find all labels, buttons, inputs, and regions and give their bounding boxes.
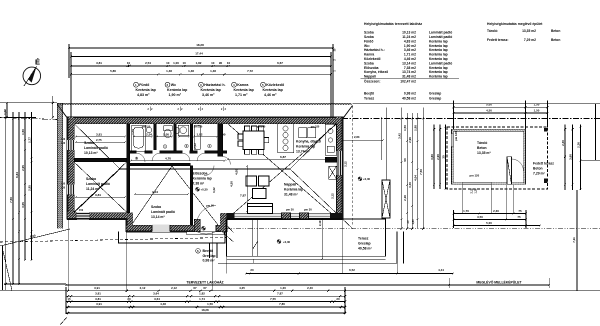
svg-text:13,74 m2: 13,74 m2 [402,70,416,74]
section column with X [382,180,390,218]
svg-text:Nappali: Nappali [364,75,376,79]
svg-text:Kerámia lap: Kerámia lap [136,88,157,92]
north arrow compass [23,66,41,86]
svg-text:Terasz: Terasz [358,237,369,241]
fence scalloped line north [58,104,353,119]
svg-text:1,98: 1,98 [414,125,418,131]
nappali cross [228,124,337,218]
svg-text:Tároló:: Tároló: [487,29,498,33]
svg-text:18,28: 18,28 [196,43,204,47]
svg-text:pm 180: pm 180 [311,125,320,128]
corridor south partition [130,163,191,166]
svg-text:90: 90 [403,158,407,162]
svg-text:Laminált padló: Laminált padló [84,146,108,150]
svg-text:4,83 m²: 4,83 m² [137,93,150,97]
svg-text:3,91: 3,91 [94,286,100,290]
svg-text:5,00: 5,00 [486,103,492,107]
table: Helyisegkimutatas meglevo epulet [487,22,560,42]
svg-text:11,24 m²: 11,24 m² [86,187,100,191]
svg-text:18,28: 18,28 [201,308,209,312]
window left 150/150 #1 [67,140,75,150]
interior partition walls [74,124,337,226]
svg-text:Laminált padló: Laminált padló [429,61,452,65]
svg-text:4,46 m2: 4,46 m2 [404,57,416,61]
svg-text:1,20: 1,20 [280,286,286,290]
svg-text:pm 30: pm 30 [286,208,294,212]
kitchen counter [278,124,337,180]
svg-text:2,30: 2,30 [561,140,565,146]
svg-text:Beton: Beton [551,38,560,42]
svg-text:Kerámia lap: Kerámia lap [429,70,448,74]
svg-text:7,38 m2: 7,38 m2 [404,66,416,70]
svg-text:11,24 m2: 11,24 m2 [402,35,416,39]
room labels [84,140,554,251]
svg-text:1,50: 1,50 [21,129,25,135]
legend circled room list [134,82,285,97]
svg-text:1,70: 1,70 [463,209,469,213]
dining table with chairs [238,126,269,154]
svg-text:⑤: ⑤ [135,157,138,161]
partition wc/haztartasi [174,124,177,151]
svg-text:2,95: 2,95 [28,185,32,191]
svg-text:20: 20 [336,297,340,301]
svg-text:20: 20 [250,268,254,272]
left vertical dimension chains [4,96,66,290]
extension verticals [68,44,70,78]
svg-text:Nappali: Nappali [284,183,296,187]
nappali south glass wall [227,213,343,219]
svg-text:1,74: 1,74 [199,297,205,301]
svg-text:1,50: 1,50 [207,302,213,306]
corridor north partition [130,151,227,154]
svg-text:6,84: 6,84 [15,172,19,178]
outbuilding interior partition [507,157,512,185]
svg-text:Beton: Beton [477,146,487,150]
entry landing + door arc [187,232,225,235]
svg-text:150: 150 [61,187,66,190]
counter along east wall [325,124,337,155]
room2 dim line [76,196,125,198]
svg-text:7,86: 7,86 [279,302,285,306]
svg-text:Kerámia lap: Kerámia lap [429,39,448,43]
svg-text:1,48: 1,48 [166,69,172,73]
terrace slab [119,219,404,263]
svg-text:Kerámia lap: Kerámia lap [429,57,448,61]
svg-text:Beton: Beton [533,166,543,170]
diagonal connector east [343,106,353,119]
svg-text:Kerámia lap: Kerámia lap [263,88,284,92]
svg-text:3,81: 3,81 [96,133,102,137]
svg-text:3,81: 3,81 [95,193,101,197]
terrain dashed line lower-left [0,238,226,243]
outbuilding dashed roof outline [447,127,548,189]
small paired marks above wall [148,107,227,112]
svg-text:Kerámia lap: Kerámia lap [429,48,448,52]
svg-text:Háztartási h.:: Háztartási h.: [364,48,385,52]
svg-text:7,87: 7,87 [240,194,246,198]
window right [336,151,343,175]
svg-text:pm 150: pm 150 [142,125,151,128]
svg-text:Kerámia lap: Kerámia lap [429,66,448,70]
svg-text:1,00: 1,00 [163,133,169,137]
circled fixture numbers [163,144,211,149]
outbuilding walls [452,129,526,184]
svg-text:4,46 m²: 4,46 m² [264,93,277,97]
glass wall posts [282,213,291,219]
bottom dimension chains [66,287,346,314]
washbasin wc [174,128,180,134]
svg-text:7,11: 7,11 [572,237,576,243]
svg-text:7,87: 7,87 [277,291,283,295]
svg-text:2,54: 2,54 [146,133,152,137]
svg-text:3,91: 3,91 [96,302,102,306]
partition room1/room2 [74,158,127,162]
svg-text:Greslap: Greslap [358,241,371,245]
svg-text:40,58 m²: 40,58 m² [358,246,372,250]
svg-text:90: 90 [222,133,226,137]
bottom wall west section [68,213,127,220]
vertical line right lower [576,190,578,291]
svg-text:10: 10 [127,61,131,65]
svg-text:Laminált padló: Laminált padló [86,182,110,186]
svg-text:7,50: 7,50 [9,197,13,203]
svg-text:Helyiségkimutatás tervezett la: Helyiségkimutatás tervezett lakóház [364,22,422,26]
walkway line to outbuilding [403,232,405,264]
svg-text:13,14 m²: 13,14 m² [151,215,165,219]
svg-text:4,70: 4,70 [165,157,171,161]
svg-text:5,86: 5,86 [110,69,116,73]
svg-text:6,67: 6,67 [277,61,283,65]
right wall window dim [331,161,348,199]
svg-text:3,64: 3,64 [154,297,160,301]
svg-text:40,58 m2: 40,58 m2 [402,97,416,101]
svg-text:3,60: 3,60 [430,154,434,160]
fence band west (vertical, hatched) [57,103,63,228]
svg-text:3,81: 3,81 [96,61,102,65]
svg-text:Szoba: Szoba [364,61,374,65]
svg-text:Kerámia lap: Kerámia lap [429,53,448,57]
site line right upper [353,103,600,105]
svg-text:3,81: 3,81 [95,297,101,301]
entry porch west bar [194,219,200,232]
window in bump wall [152,224,170,232]
svg-text:13,35 m²: 13,35 m² [477,151,491,155]
boundary slanted line bottom-left [0,229,70,246]
svg-text:30: 30 [442,155,446,159]
svg-text:31,48 m²: 31,48 m² [284,192,298,196]
svg-text:2,12: 2,12 [171,286,177,290]
svg-text:Beejtő: Beejtő [364,92,374,96]
svg-text:4,83 m2: 4,83 m2 [404,39,416,43]
svg-text:4,00: 4,00 [235,169,239,175]
svg-text:+0,30: +0,30 [201,188,209,192]
svg-text:Konyha, étkező: Konyha, étkező [296,140,321,144]
svg-text:Beton: Beton [551,29,560,33]
svg-text:3,46 m²: 3,46 m² [202,93,215,97]
svg-text:31,48 m2: 31,48 m2 [402,75,416,79]
svg-text:10,13 m²: 10,13 m² [84,151,98,155]
corridor dim line [131,160,225,162]
svg-text:1,48: 1,48 [210,69,216,73]
svg-text:3,64: 3,64 [153,291,159,295]
svg-text:7,29 m²: 7,29 m² [533,171,546,175]
svg-text:2,12: 2,12 [140,286,146,290]
svg-text:1,00: 1,00 [3,109,7,115]
outbuilding wall hatch strips [452,129,526,131]
svg-text:3,44: 3,44 [152,190,158,194]
partition furdo/wc [154,124,157,151]
dashed vertical east of house [352,106,354,225]
svg-text:150: 150 [79,209,84,212]
house outer walls (hatched) [67,117,343,235]
boundary slanted line far-left [3,251,12,291]
top dim labels [96,43,283,73]
haztartasi washer [178,125,189,136]
svg-text:Szoba: Szoba [84,141,94,145]
svg-text:Greslap: Greslap [429,92,441,96]
svg-text:Greslap: Greslap [203,254,216,258]
svg-text:Háztartási h.: Háztartási h. [204,83,225,87]
svg-text:1,00: 1,00 [173,61,179,65]
partition kamra/kozlekedo [218,124,223,157]
svg-text:2,95: 2,95 [21,165,25,171]
svg-text:4,25: 4,25 [239,286,245,290]
terrace vertical dim [321,219,323,259]
svg-text:+0,30: +0,30 [283,240,291,244]
interior dim lines room1 [75,135,384,260]
svg-text:2,54: 2,54 [145,61,151,65]
svg-text:+0,30: +0,30 [363,177,371,181]
bathtub [132,125,231,165]
svg-text:17,44: 17,44 [195,51,203,55]
corridor partition door gaps [137,150,145,153]
bump-out hips [128,166,172,230]
svg-text:1,90 m²: 1,90 m² [169,93,182,97]
svg-text:Kerámia lap: Kerámia lap [296,144,315,148]
svg-text:10: 10 [183,61,187,65]
svg-text:Wc: Wc [171,83,176,87]
svg-text:5,00: 5,00 [486,221,492,225]
svg-text:3,60: 3,60 [569,154,573,160]
window bottom-left [77,212,89,220]
left dim labels (rotated) [3,109,36,239]
kitchen dim line [228,158,335,160]
svg-text:Összesen:: Összesen: [364,79,381,83]
nappali vertical dim [246,166,248,211]
table: Helyisegkimutatas tervezett lakohaz [361,22,460,101]
svg-text:Kerámia lap: Kerámia lap [201,88,222,92]
svg-text:2,90: 2,90 [436,154,440,160]
svg-text:pm 30: pm 30 [304,208,312,212]
entry apron outline [119,232,226,244]
svg-text:1,50: 1,50 [534,103,540,107]
site line upper left [0,102,57,104]
kitchen stub wall [325,157,337,162]
svg-text:3,30: 3,30 [408,182,412,188]
fridge/cabinets [299,128,307,138]
door arcs [136,153,524,225]
svg-text:1,20: 1,20 [475,188,478,193]
svg-text:3,42: 3,42 [398,133,402,139]
svg-text:102,47 m2: 102,47 m2 [400,79,416,83]
svg-text:Konyha, étkező: Konyha, étkező [364,70,388,74]
porch posts [544,179,548,184]
entry door opening [197,225,217,233]
right wall [337,117,343,219]
sofa set [246,176,273,214]
lintel labels under top wall [142,125,320,128]
svg-text:75: 75 [518,209,522,213]
svg-text:150: 150 [61,138,66,141]
svg-text:Beejtő: Beejtő [203,249,214,253]
svg-text:1,71 m2: 1,71 m2 [404,53,416,57]
top dimension chains [68,44,334,117]
entry walkway [209,243,211,258]
svg-text:10: 10 [227,61,231,65]
svg-text:20: 20 [127,297,131,301]
svg-text:150: 150 [61,183,66,186]
svg-text:2,16: 2,16 [403,195,407,201]
svg-text:4,50: 4,50 [486,109,492,113]
svg-text:TERVEZETT LAKÓHÁZ: TERVEZETT LAKÓHÁZ [186,280,223,285]
svg-text:10,13 m2: 10,13 m2 [402,31,416,35]
svg-text:1,50: 1,50 [403,125,407,131]
svg-text:Szoba: Szoba [86,177,96,181]
svg-text:Kamra: Kamra [237,83,249,87]
svg-text:3,81: 3,81 [95,291,101,295]
boundary chain line right [342,118,600,120]
room2 cross [74,162,127,212]
svg-text:75: 75 [517,215,521,219]
terrace bottom dim line [245,272,454,274]
chain line lower (terrace level) [213,228,600,230]
room3 dim line [135,193,188,195]
svg-text:0,98 m2: 0,98 m2 [404,92,416,96]
dim lines wc/bath row [134,136,152,138]
svg-text:Kerámia lap: Kerámia lap [234,88,255,92]
svg-text:13,35 m2: 13,35 m2 [522,29,536,33]
bump-out east wall [220,213,227,232]
svg-text:15: 15 [67,297,71,301]
site line right mid [581,159,600,161]
svg-text:2,96: 2,96 [408,137,412,143]
svg-text:67: 67 [193,286,197,290]
boundary chain line left [0,118,57,120]
svg-text:2,02: 2,02 [193,143,197,149]
svg-text:7,38 m²: 7,38 m² [193,181,206,185]
house SE corner diagonal [343,220,353,229]
terrace outer edge [218,262,397,264]
partition haztartasi/kamra [190,124,193,151]
extension verticals below building [68,219,549,291]
window left 150/150 #2 [67,185,75,195]
svg-text:2,36: 2,36 [577,142,581,148]
svg-text:2,49: 2,49 [318,220,322,226]
top wall [68,117,343,123]
window sill labels [61,138,84,212]
svg-text:Laminált padló: Laminált padló [429,31,452,35]
svg-text:2,30: 2,30 [493,209,499,213]
angle mark bottom left [60,317,67,325]
svg-text:Greslap: Greslap [429,97,441,101]
svg-text:1,82: 1,82 [196,61,202,65]
svg-text:Fedett terasz:: Fedett terasz: [487,38,508,42]
svg-text:Terasz: Terasz [364,97,375,101]
svg-text:1,48: 1,48 [188,69,194,73]
svg-text:Laminált padló: Laminált padló [429,35,452,39]
interior dimension texts [95,129,480,244]
bump-out west wall [127,213,134,232]
svg-text:4,04: 4,04 [414,175,418,181]
svg-text:3,42: 3,42 [212,187,216,193]
legend 6 belepo [196,249,216,263]
diagonal connector west [58,105,67,118]
svg-text:Kerámia lap: Kerámia lap [429,44,448,48]
outbuilding left vertical dims [433,125,435,190]
svg-text:pm 240: pm 240 [257,125,266,128]
svg-text:4,50: 4,50 [230,181,234,187]
dim 2,83 line right of house [343,139,384,141]
outbuilding right vertical dims [564,125,566,191]
svg-text:MEGLÉVŐ MELLÉKÉPÜLET: MEGLÉVŐ MELLÉKÉPÜLET [476,280,522,285]
svg-text:7,72: 7,72 [247,69,253,73]
svg-text:Szoba: Szoba [151,205,161,209]
roof hip/ridge projection lines [68,118,353,231]
svg-text:Szoba: Szoba [364,35,374,39]
svg-text:1,50: 1,50 [534,109,540,113]
fireplace [329,166,337,179]
svg-text:3,05: 3,05 [21,202,25,208]
svg-text:3,46 m2: 3,46 m2 [404,48,416,52]
svg-text:2,40: 2,40 [307,286,313,290]
svg-text:Kerámia lap: Kerámia lap [193,176,212,180]
svg-text:7,55: 7,55 [270,297,276,301]
svg-text:0,98 m²: 0,98 m² [203,259,216,263]
svg-text:Kerámia lap: Kerámia lap [284,187,303,191]
svg-text:Kerámia lap: Kerámia lap [167,88,188,92]
svg-text:2,12: 2,12 [343,161,347,167]
level markers [196,177,362,244]
svg-text:13,74 m²: 13,74 m² [296,149,310,153]
left plot edge vertical [2,246,4,290]
svg-text:Közlekedő: Közlekedő [266,83,285,87]
outbuilding door/window south [462,182,491,185]
svg-text:É: É [35,58,40,67]
svg-text:pm 120: pm 120 [454,131,458,141]
svg-text:1,90 m2: 1,90 m2 [404,44,416,48]
svg-text:Fürdő: Fürdő [139,83,150,87]
svg-text:3,50: 3,50 [477,215,483,219]
svg-text:2,10: 2,10 [471,188,474,193]
svg-text:Laminált padló: Laminált padló [151,210,175,214]
svg-text:7,50: 7,50 [419,169,423,175]
corridor-kitchen door arc [223,157,231,165]
tiny labels at top dim right end [334,48,337,72]
svg-text:2,75: 2,75 [96,138,102,142]
svg-text:Helyiségkimutatás meglévő épül: Helyiségkimutatás meglévő épület [487,22,543,26]
svg-text:pm 90: pm 90 [206,204,214,208]
svg-text:Kamra: Kamra [364,53,374,57]
outbuilding bottom dims [454,213,527,215]
svg-text:10: 10 [166,61,170,65]
svg-text:Előszoba: Előszoba [364,66,379,70]
svg-text:150: 150 [61,142,66,145]
svg-text:Közlekedő: Közlekedő [364,57,381,61]
svg-text:1,77: 1,77 [28,137,32,143]
svg-text:1,71 m²: 1,71 m² [235,93,248,97]
partition szoba3/eloszoba [190,166,193,225]
bump-out south wall [127,225,227,232]
